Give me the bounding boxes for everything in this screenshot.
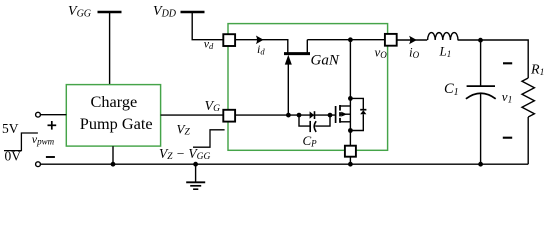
junction dot CP left branch: [297, 113, 302, 118]
svg-text:L1: L1: [439, 44, 452, 60]
ground: [186, 164, 205, 189]
wire node VG to mosfet gate: [235, 114, 336, 116]
node S (square at green box bottom): [345, 146, 356, 157]
capacitor CP: [299, 115, 330, 132]
minus sign top of v1: [503, 62, 512, 64]
junction dot C1 bottom: [478, 162, 483, 167]
svg-text:VZ − VGG: VZ − VGG: [159, 146, 211, 162]
wire node vO to inductor L1: [397, 39, 428, 41]
svg-text:CP: CP: [303, 133, 318, 149]
svg-text:GaN: GaN: [311, 52, 340, 68]
wire GaN source to node vO: [307, 39, 385, 41]
junction dot top of mosfet drain branch: [348, 37, 353, 42]
svg-text:vd: vd: [204, 37, 214, 52]
node vO (square): [385, 34, 397, 46]
svg-text:id: id: [257, 42, 265, 57]
svg-text:iO: iO: [409, 44, 420, 60]
transistor GaN HEMT: [284, 40, 310, 115]
resistor R1: [522, 78, 534, 117]
junction dot CP right branch: [328, 113, 333, 118]
svg-text:vpwm: vpwm: [32, 132, 55, 146]
junction dot mosfet source: [348, 128, 353, 133]
vpwm waveform glyph: [4, 133, 38, 151]
svg-text:Pump Gate: Pump Gate: [80, 114, 153, 133]
minus sign input: [46, 156, 55, 158]
wire V_DD stem down and right to node vd: [192, 12, 223, 40]
input terminal + (circle): [36, 112, 41, 117]
charge pump gate block: [66, 85, 160, 147]
wire R1 bottom to rail: [527, 117, 529, 164]
junction dot output top node: [478, 38, 483, 43]
junction dot mosfet drain: [348, 96, 353, 101]
transistor Q1 mosfet: [336, 40, 351, 146]
svg-text:VGG: VGG: [68, 4, 91, 20]
capacitor C1: [466, 40, 496, 164]
node vd (square): [223, 34, 235, 46]
wire V_GG stem to charge pump box: [109, 12, 111, 85]
wire input+ to block: [40, 114, 66, 116]
diode D1: [310, 111, 315, 119]
junction dot charge pump return: [111, 162, 116, 167]
wire node vd to GaN drain: [235, 40, 288, 53]
arrow iO on wire: [409, 36, 417, 45]
node VG (square): [223, 110, 235, 122]
svg-text:0V: 0V: [5, 148, 22, 163]
minus sign bottom of v1: [503, 137, 512, 139]
svg-text:5V: 5V: [2, 121, 19, 136]
svg-text:Charge: Charge: [91, 92, 138, 111]
svg-text:v1: v1: [502, 89, 513, 106]
VZ waveform glyph: [193, 130, 225, 147]
svg-text:VDD: VDD: [153, 4, 177, 20]
svg-text:VZ: VZ: [177, 122, 191, 138]
plus sign input: [48, 121, 57, 130]
svg-text:R1: R1: [530, 63, 544, 79]
junction dot mosfet source rail: [348, 162, 353, 167]
svg-text:C1: C1: [444, 81, 459, 98]
arrow id on wire: [256, 36, 264, 45]
green box GaN device module: [228, 24, 388, 151]
wire bottom rail: [40, 163, 528, 165]
wire node S to bottom rail: [349, 157, 351, 165]
junction dot ground tap: [193, 162, 198, 167]
junction dot GaN gate branch: [286, 113, 291, 118]
inductor L1: [428, 33, 458, 40]
V_DD supply terminal bar: [181, 11, 205, 14]
svg-text:VG: VG: [205, 99, 221, 114]
body diode of Q1: [350, 98, 366, 130]
wire block output to node VG: [161, 114, 224, 116]
input terminal - (circle): [36, 162, 41, 167]
wire L1 to output node and on to R1 top: [458, 40, 529, 78]
V_GG supply terminal bar: [98, 11, 122, 14]
wire charge pump bottom to rail: [112, 146, 114, 164]
